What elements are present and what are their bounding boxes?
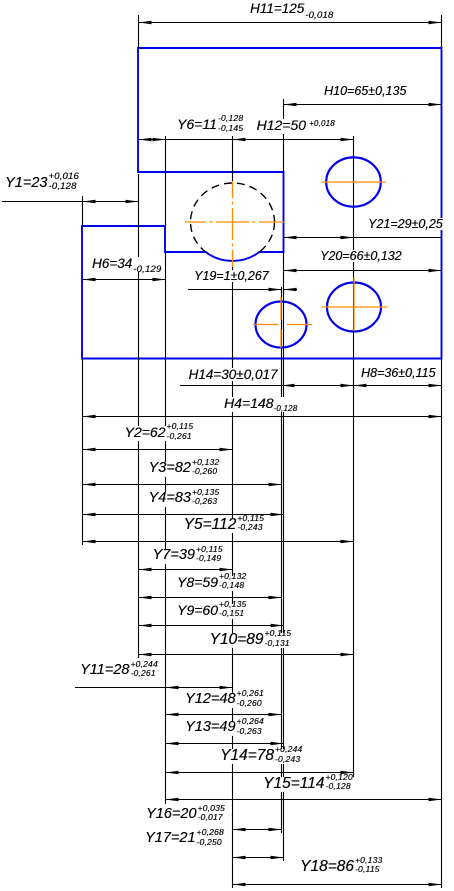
dimension line Y15 bbox=[166, 799, 442, 801]
extension line x=232.5 upper bbox=[232, 136, 234, 181]
dimension label Y1 bbox=[5, 177, 79, 193]
dimension label Y10 bbox=[210, 633, 292, 648]
arrowheads Y6-H12 bbox=[139, 138, 152, 141]
dimension label Y18 bbox=[300, 860, 382, 875]
center line hidden hole vertical bbox=[232, 181, 234, 198]
arrowheads Y19a bbox=[269, 288, 282, 291]
dimension label H14 bbox=[189, 368, 278, 381]
dimension line Y7 bbox=[139, 569, 233, 571]
arrowheads Y16 bbox=[233, 828, 246, 831]
hole top-right (circle) bbox=[326, 157, 381, 206]
arrowheads Y8 bbox=[139, 596, 152, 599]
dimension label Y3 bbox=[149, 462, 220, 477]
arrowheads Y19b bbox=[284, 288, 297, 291]
dimension line Y10 bbox=[139, 654, 354, 656]
dimension line Y2 bbox=[83, 449, 233, 451]
center line lower-right hole vertical bbox=[353, 277, 355, 331]
dimension line Y18 bbox=[233, 884, 442, 886]
arrowheads Y17 bbox=[233, 856, 246, 859]
arrowheads Y10 bbox=[139, 653, 152, 656]
dimension line Y14 bbox=[166, 772, 354, 774]
dimension label Y15 bbox=[263, 777, 353, 792]
arrowheads Y5 bbox=[83, 540, 96, 543]
arrowheads Y14 bbox=[166, 771, 179, 774]
arrowheads Y1 bbox=[83, 200, 96, 203]
dimension label Y17 bbox=[145, 832, 224, 847]
dimension line Y6-H12 bbox=[139, 139, 354, 141]
extension line x=232.5 lower bbox=[232, 267, 234, 888]
extension line x=138.5 long bbox=[138, 174, 140, 658]
extension line x=441.5 top bbox=[441, 15, 443, 47]
extension line x=165.5 lower bbox=[165, 253, 167, 804]
dimension line Y13 bbox=[166, 743, 284, 745]
dimension line Y16 bbox=[233, 829, 282, 831]
dimension label Y12 bbox=[185, 693, 264, 708]
dimension line H4 bbox=[83, 416, 442, 418]
center line hidden hole horizontal bbox=[185, 221, 206, 223]
center line top-right hole horizontal bbox=[322, 181, 387, 183]
hole lower-right (circle) bbox=[327, 283, 381, 332]
dimension label H6 bbox=[92, 257, 161, 272]
dimension label Y13 bbox=[185, 721, 264, 736]
dimension line Y11 bbox=[75, 687, 233, 689]
dimension label Y8 bbox=[177, 576, 246, 591]
dimension label Y11 bbox=[80, 664, 158, 679]
dimension line H14-H8 bbox=[180, 385, 442, 387]
extension line x=82.5 lower bbox=[82, 359, 84, 545]
dimension line Y9 bbox=[139, 625, 284, 627]
arrowheads Y4 bbox=[83, 513, 96, 516]
arrowheads H6 bbox=[83, 278, 96, 281]
dimension label Y19 bbox=[194, 270, 269, 282]
dimension label Y6 bbox=[177, 118, 243, 133]
arrowheads Y2 bbox=[83, 448, 96, 451]
dimension line Y12 bbox=[166, 714, 282, 716]
arrowheads H4 bbox=[83, 415, 96, 418]
dimension line H6 bbox=[83, 279, 166, 281]
dimension line Y20 bbox=[284, 270, 442, 272]
arrowheads Y15 bbox=[166, 798, 179, 801]
dimension label Y9 bbox=[177, 604, 246, 619]
dimension label Y20 bbox=[320, 250, 402, 262]
arrowheads Y12 bbox=[166, 713, 179, 716]
arrowheads H14-H8 bbox=[282, 384, 295, 387]
dimension line Y21 bbox=[284, 237, 442, 239]
dimension label H12 bbox=[257, 119, 335, 134]
dimension line Y19b bbox=[284, 289, 298, 291]
arrowheads H10 bbox=[284, 103, 297, 106]
extension line x=283.5 lower bbox=[283, 253, 285, 861]
arrowheads Y20 bbox=[284, 269, 297, 272]
dimension label Y5 bbox=[184, 518, 265, 533]
dimension line Y8 bbox=[139, 597, 282, 599]
arrowheads Y18 bbox=[233, 883, 246, 886]
dimension line Y1 bbox=[2, 201, 139, 203]
dimension label Y4 bbox=[149, 492, 220, 507]
dimension line Y19a bbox=[188, 289, 282, 291]
dimension line H11 bbox=[139, 22, 442, 24]
dimension line Y3 bbox=[83, 484, 282, 486]
hole lower-left (circle) bbox=[256, 302, 307, 348]
center line lower-right hole horizontal bbox=[322, 306, 387, 308]
arrowheads H11 bbox=[139, 21, 152, 24]
dimension line Y5 bbox=[83, 541, 354, 543]
dimension label Y7 bbox=[153, 549, 223, 564]
dimension line Y4 bbox=[83, 514, 284, 516]
dimension label Y2 bbox=[125, 426, 194, 441]
extension line x=441.5 lower bbox=[441, 359, 443, 888]
arrowheads Y3 bbox=[83, 483, 96, 486]
dimension label Y21 bbox=[368, 218, 443, 230]
center line lower-left hole vertical bbox=[280, 297, 282, 320]
dimension line Y17 bbox=[233, 857, 284, 859]
arrowheads Y21 bbox=[284, 236, 297, 239]
dimension label H11 bbox=[250, 2, 333, 17]
part outline (stepped plate, blue) with breakout arc of hidden hole bbox=[82, 48, 442, 359]
dimension label Y14 bbox=[220, 749, 302, 764]
extension line x=82.5 upper bbox=[82, 196, 84, 225]
arrowheads Y9 bbox=[139, 624, 152, 627]
dimension label H4 bbox=[224, 397, 297, 412]
extension line x=281.5 hole center bbox=[281, 287, 283, 833]
extension line x=283.5 upper bbox=[283, 99, 285, 171]
center line lower-left hole horizontal bbox=[253, 324, 279, 326]
extension line x=138.5 top bbox=[138, 15, 140, 47]
hidden hole (dashed circle) bbox=[191, 183, 275, 261]
arrowheads Y7 bbox=[139, 568, 152, 571]
dimension label Y16 bbox=[146, 808, 225, 823]
arrowheads Y11 bbox=[166, 686, 179, 689]
extension line x=353.5 hole center bbox=[353, 136, 355, 777]
dimension line H10 bbox=[284, 104, 442, 106]
arrowheads Y13 bbox=[166, 742, 179, 745]
dimension label H10 bbox=[324, 85, 406, 97]
dimension label H8 bbox=[361, 367, 435, 379]
extension line x=165.5 upper bbox=[165, 136, 167, 225]
